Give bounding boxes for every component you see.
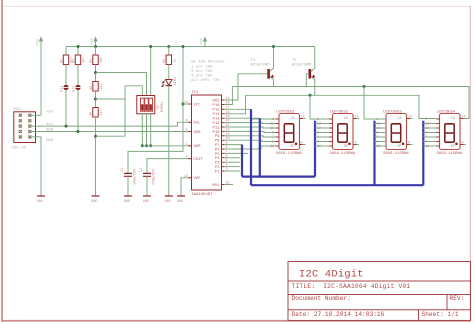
svg-text:BC557SMD: BC557SMD <box>251 64 271 68</box>
wire P16 to line A <box>225 87 233 105</box>
svg-text:13: 13 <box>425 123 429 127</box>
svg-text:GND: GND <box>143 200 149 204</box>
wires display3 left pins to bus <box>375 124 387 147</box>
svg-text:P15: P15 <box>212 109 220 113</box>
wire CEXT to C2 <box>147 159 192 174</box>
net line A <box>232 87 469 119</box>
+5V arrow right <box>201 36 208 46</box>
resistor R3 <box>90 47 104 82</box>
right pin stubs <box>222 100 225 185</box>
svg-text:SCL: SCL <box>46 123 54 127</box>
svg-text:all off= 72h: all off= 72h <box>191 78 220 83</box>
svg-text:SA56-11SRWA: SA56-11SRWA <box>276 152 302 156</box>
svg-text:1 on= 70h: 1 on= 70h <box>191 64 213 69</box>
resistor R5 <box>90 108 104 197</box>
svg-text:C2: C2 <box>140 168 144 172</box>
svg-text:P13: P13 <box>212 118 220 122</box>
svg-text:8: 8 <box>272 132 274 136</box>
svg-text:10: 10 <box>270 127 274 131</box>
short stubs P6..P1 MX1 <box>225 152 248 154</box>
svg-text:LED1: LED1 <box>174 77 178 85</box>
+5V arrow mid <box>91 36 98 46</box>
note text S1 I2C address <box>191 60 225 83</box>
svg-text:P2: P2 <box>215 166 220 170</box>
svg-text:DP: DP <box>398 145 402 149</box>
fan wires to display1 <box>225 122 276 125</box>
svg-text:2: 2 <box>317 141 319 145</box>
svg-text:1: 1 <box>425 118 427 122</box>
wire LED to ground <box>168 86 170 196</box>
wire vertical jog <box>124 86 126 136</box>
svg-text:7: 7 <box>376 136 378 140</box>
svg-text:GND: GND <box>91 200 97 204</box>
svg-text:7: 7 <box>272 136 274 140</box>
resistor R4 <box>90 82 104 108</box>
svg-text:P4: P4 <box>215 157 220 161</box>
svg-text:S1 I2C-Adresse: S1 I2C-Adresse <box>191 60 225 65</box>
wire ADR to IC <box>142 145 191 147</box>
transistor T1 <box>292 47 315 96</box>
svg-text:2k2: 2k2 <box>99 83 104 89</box>
node tap1 <box>94 71 97 74</box>
svg-text:11: 11 <box>317 145 321 149</box>
display LED3 7seg <box>364 87 413 156</box>
svg-text:12: 12 <box>184 175 188 179</box>
wire +5V to IC VCC and caps <box>128 47 183 174</box>
wire rail to S1 pin3 <box>150 47 152 96</box>
svg-text:P12: P12 <box>212 122 220 126</box>
svg-text:DP: DP <box>291 145 295 149</box>
svg-text:1: 1 <box>272 118 274 122</box>
net line B <box>246 95 437 118</box>
svg-text:GND: GND <box>165 200 171 204</box>
svg-text:8: 8 <box>425 132 427 136</box>
left pin stubs <box>188 104 191 178</box>
svg-text:11: 11 <box>425 145 429 149</box>
node tap3 <box>94 135 97 138</box>
svg-text:DIP03: DIP03 <box>161 102 165 112</box>
svg-text:SA56-11SRWA: SA56-11SRWA <box>437 152 463 156</box>
svg-text:R2: R2 <box>72 59 76 63</box>
svg-text:14: 14 <box>301 116 305 120</box>
svg-text:LED7SEG4: LED7SEG4 <box>437 111 456 115</box>
ground connector <box>37 196 45 204</box>
svg-text:13: 13 <box>376 123 380 127</box>
svg-text:GND: GND <box>37 200 43 204</box>
svg-text:6: 6 <box>186 119 188 123</box>
svg-text:Document Number:: Document Number: <box>292 295 351 302</box>
svg-text:P11: P11 <box>212 126 220 130</box>
svg-text:8: 8 <box>317 132 319 136</box>
svg-text:14: 14 <box>462 116 466 120</box>
svg-text:P3: P3 <box>215 162 220 166</box>
net SCL <box>31 122 191 126</box>
svg-text:9: 9 <box>355 142 357 146</box>
svg-text:+5V: +5V <box>46 111 54 115</box>
svg-text:14: 14 <box>355 116 359 120</box>
wire CA1 display3 from line A <box>364 87 386 120</box>
svg-text:I2C 4Digit: I2C 4Digit <box>299 269 364 281</box>
wire jog to S1 pin1 <box>125 86 142 96</box>
svg-text:11: 11 <box>270 145 274 149</box>
bus blue display4 vertical <box>422 121 424 185</box>
wire connector +5V <box>31 114 41 116</box>
svg-text:SDA: SDA <box>46 128 54 132</box>
net SDA <box>31 131 191 133</box>
junction rail LED resistor <box>167 45 170 48</box>
svg-text:P9: P9 <box>215 135 220 139</box>
ground VEE <box>177 196 185 204</box>
display LED2 7seg <box>310 95 359 156</box>
svg-text:SDA: SDA <box>194 131 202 135</box>
ground C1 <box>124 196 132 204</box>
svg-text:DP: DP <box>344 145 348 149</box>
resistor R1 <box>60 47 74 85</box>
svg-text:10: 10 <box>425 127 429 131</box>
svg-text:2: 2 <box>376 141 378 145</box>
ground ladder <box>91 196 99 204</box>
svg-text:GND: GND <box>177 200 183 204</box>
svg-text:LED7SEG1: LED7SEG1 <box>276 111 295 115</box>
svg-text:11: 11 <box>184 101 188 105</box>
svg-text:P7: P7 <box>215 144 220 148</box>
svg-text:SV1: SV1 <box>14 108 22 112</box>
svg-text:7: 7 <box>317 136 319 140</box>
wire VCC pin <box>183 103 192 105</box>
wires S1 bottom pins <box>142 114 150 146</box>
svg-text:P10: P10 <box>212 131 220 135</box>
svg-text:SAA1064NT: SAA1064NT <box>192 193 214 197</box>
svg-text:T1: T1 <box>292 59 297 63</box>
LED1 <box>162 77 178 87</box>
svg-text:GND: GND <box>124 200 130 204</box>
bus blue h2 <box>251 184 423 186</box>
svg-text:ADR: ADR <box>194 145 202 149</box>
svg-text:BC557SMD: BC557SMD <box>292 64 312 68</box>
svg-text:8: 8 <box>376 132 378 136</box>
wire tap2 jog <box>96 98 126 100</box>
wire +5V arrow to connector <box>40 47 42 116</box>
svg-text:10k: 10k <box>99 57 104 63</box>
svg-text:GND: GND <box>46 139 54 143</box>
display LED4 7seg <box>423 111 466 156</box>
svg-text:VEE: VEE <box>194 177 202 181</box>
svg-text:P1: P1 <box>215 170 220 174</box>
transistor T2 <box>251 47 275 87</box>
svg-text:IC1: IC1 <box>192 91 200 95</box>
bus blue v2 <box>250 109 252 185</box>
solder jumper SJ2 <box>72 85 81 132</box>
svg-text:MX2: MX2 <box>212 99 220 103</box>
svg-text:5: 5 <box>186 129 188 133</box>
wire P15 to bus v2 <box>225 108 251 110</box>
svg-text:C1: C1 <box>121 168 125 172</box>
svg-text:13: 13 <box>317 123 321 127</box>
svg-text:10: 10 <box>317 127 321 131</box>
bus blue display3 vertical <box>373 121 375 185</box>
connector SV1 IDC-10 <box>14 112 36 143</box>
display LED1 7seg <box>270 111 305 156</box>
svg-text:R4: R4 <box>90 85 94 89</box>
capacitor C1 <box>121 168 138 185</box>
svg-text:LED7SEG2: LED7SEG2 <box>330 111 349 115</box>
svg-text:+5V: +5V <box>201 37 205 45</box>
svg-text:2: 2 <box>186 156 188 160</box>
bus blue display2 vertical <box>314 121 316 177</box>
svg-text:13: 13 <box>270 123 274 127</box>
svg-text:100u/35V: 100u/35V <box>133 168 138 185</box>
+5V arrow left <box>37 36 44 46</box>
svg-text:P16: P16 <box>212 104 220 108</box>
wire tap1 to S1 pin2 <box>96 73 147 96</box>
wire MX2 to T2 base <box>225 74 268 100</box>
svg-text:DP: DP <box>451 145 455 149</box>
svg-text:REV:: REV: <box>450 295 465 302</box>
svg-text:1: 1 <box>186 143 188 147</box>
ground LED <box>165 196 173 204</box>
bus blue v3 <box>259 118 261 176</box>
junction SCL pullup <box>65 125 68 128</box>
svg-text:IDC-10: IDC-10 <box>12 147 27 151</box>
resistor R2 <box>72 47 86 85</box>
svg-text:SA56-11SRWA: SA56-11SRWA <box>330 152 356 156</box>
svg-text:Date: 27.10.2014 14:03:16: Date: 27.10.2014 14:03:16 <box>292 311 385 318</box>
svg-text:SJ2: SJ2 <box>72 86 76 92</box>
junction rail R3 <box>94 45 97 48</box>
svg-text:P8: P8 <box>215 140 220 144</box>
svg-text:+5V: +5V <box>91 37 95 45</box>
wire dp display4 <box>464 144 467 146</box>
svg-text:SJ1: SJ1 <box>60 86 64 92</box>
wire P7 to bus v1 <box>225 144 242 146</box>
ground C2 <box>143 196 151 204</box>
svg-text:VCC: VCC <box>194 103 202 107</box>
solder jumper SJ1 <box>60 85 69 126</box>
svg-text:+5V: +5V <box>37 38 41 46</box>
wire display1 CA1 <box>252 118 276 120</box>
svg-text:SCL: SCL <box>194 122 202 126</box>
svg-text:LED7SEG3: LED7SEG3 <box>383 111 402 115</box>
dip switch S1 <box>137 96 165 114</box>
wire P14 to line B <box>225 95 246 114</box>
bus blue h1 <box>242 176 315 178</box>
capacitor C2 <box>140 168 157 185</box>
svg-text:R5: R5 <box>90 111 94 115</box>
svg-text:P5: P5 <box>215 153 220 157</box>
wire CA1 display2 from line B <box>310 95 329 119</box>
svg-text:9: 9 <box>301 142 303 146</box>
junction line B T1 <box>309 94 312 97</box>
svg-text:11: 11 <box>376 145 380 149</box>
svg-text:1k: 1k <box>172 59 177 63</box>
svg-text:3 on= 76h: 3 on= 76h <box>191 73 213 78</box>
title block <box>288 262 471 321</box>
svg-text:470n/35V: 470n/35V <box>152 168 157 185</box>
bus blue v1 <box>241 145 243 177</box>
svg-text:9: 9 <box>462 142 464 146</box>
node tap2 <box>94 98 97 101</box>
svg-text:SA56-11SRWA: SA56-11SRWA <box>383 152 409 156</box>
wire VEE to ground <box>181 178 192 196</box>
svg-text:10: 10 <box>376 127 380 131</box>
svg-text:9: 9 <box>408 142 410 146</box>
node VCC junction <box>182 103 185 106</box>
svg-text:MX1: MX1 <box>212 184 220 188</box>
svg-text:2: 2 <box>425 141 427 145</box>
svg-text:4k7: 4k7 <box>82 57 87 63</box>
junction SDA pullup <box>77 130 80 133</box>
junction rail R2 <box>77 45 80 48</box>
svg-text:CEXT: CEXT <box>194 158 204 162</box>
svg-text:P6: P6 <box>215 148 220 152</box>
svg-text:2: 2 <box>272 141 274 145</box>
wire tap3 to jog <box>96 135 126 137</box>
wire P13 to bus v3 <box>225 117 260 119</box>
junction line A display3 drop <box>363 85 366 88</box>
svg-text:T2: T2 <box>251 59 256 63</box>
svg-text:Sheet: 1/1: Sheet: 1/1 <box>422 311 459 318</box>
svg-text:R1: R1 <box>60 59 64 63</box>
+5V rail <box>66 46 315 48</box>
svg-text:7: 7 <box>425 136 427 140</box>
wire GND from connector <box>31 137 41 196</box>
svg-text:TITLE: I2C-SAA1064 4Digit V01: TITLE: I2C-SAA1064 4Digit V01 <box>292 283 411 290</box>
wires display2 left pins to bus <box>315 124 329 147</box>
IC IC1 SAA1064 <box>192 95 222 190</box>
svg-text:R3: R3 <box>90 59 94 63</box>
resistor R6 <box>163 47 177 80</box>
svg-text:P14: P14 <box>212 113 220 117</box>
wires display4 left pins to bus <box>423 124 436 147</box>
svg-text:R6: R6 <box>163 59 167 63</box>
svg-text:2k2: 2k2 <box>99 109 104 115</box>
svg-text:14: 14 <box>408 116 412 120</box>
svg-text:2 on= 74h: 2 on= 74h <box>191 69 213 74</box>
